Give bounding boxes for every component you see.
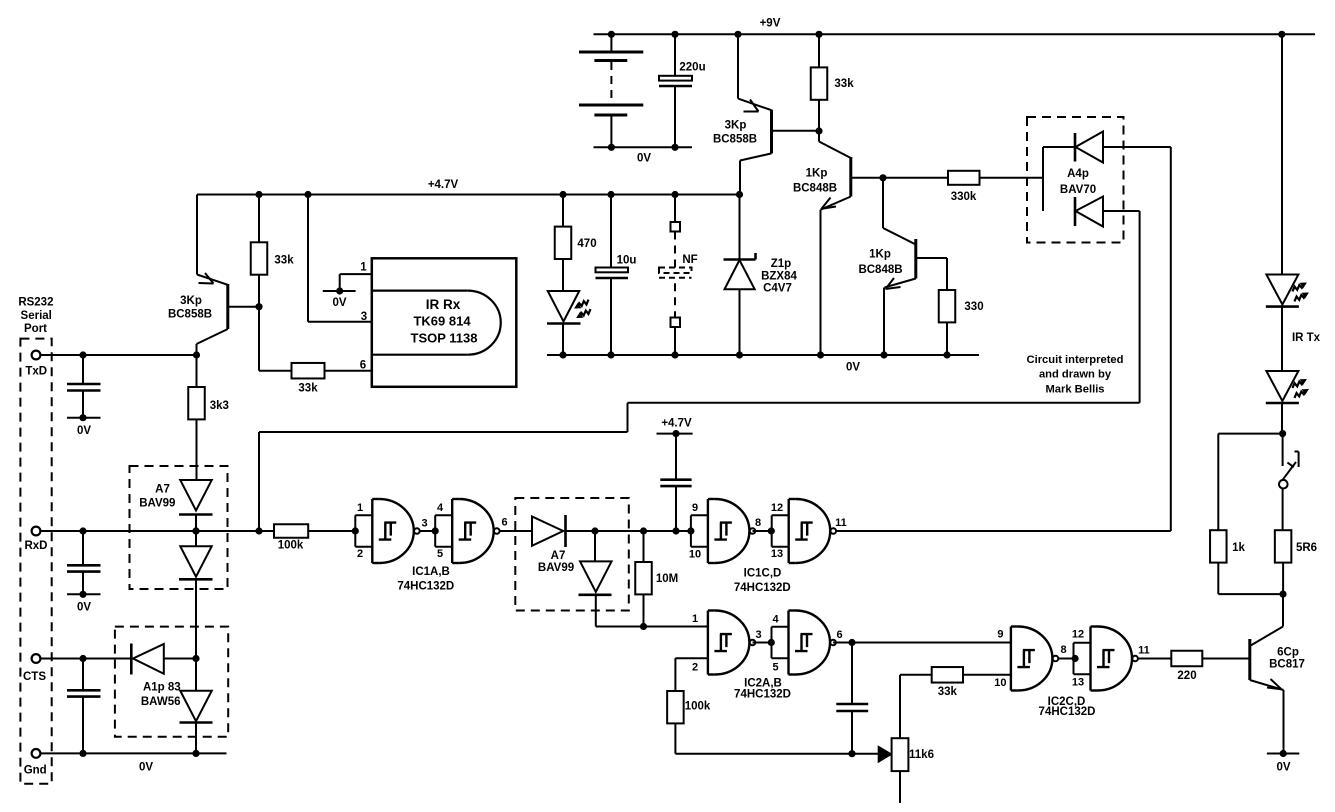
svg-text:10M: 10M (656, 573, 678, 585)
svg-text:330: 330 (964, 301, 983, 313)
svg-text:2: 2 (357, 548, 363, 560)
svg-text:10: 10 (994, 677, 1006, 689)
svg-text:1: 1 (360, 261, 367, 273)
svg-text:0V: 0V (77, 425, 91, 437)
svg-text:5: 5 (437, 548, 443, 560)
svg-text:11: 11 (1138, 645, 1150, 657)
svg-text:3: 3 (421, 518, 427, 530)
svg-text:1Kp: 1Kp (869, 249, 891, 261)
svg-text:10: 10 (689, 549, 701, 561)
svg-text:+4.7V: +4.7V (661, 418, 692, 430)
svg-text:NF: NF (682, 254, 697, 266)
svg-text:74HC132D: 74HC132D (397, 581, 454, 593)
svg-text:10u: 10u (617, 255, 637, 267)
svg-text:Mark Bellis: Mark Bellis (1045, 384, 1104, 396)
svg-text:+9V: +9V (760, 18, 781, 30)
svg-text:+4.7V: +4.7V (428, 179, 459, 191)
svg-text:A7: A7 (155, 484, 170, 496)
svg-text:9: 9 (997, 629, 1003, 641)
svg-text:BAW56: BAW56 (141, 696, 181, 708)
svg-text:BAV70: BAV70 (1060, 184, 1096, 196)
svg-text:Port: Port (24, 323, 47, 335)
svg-text:RS232: RS232 (18, 296, 53, 308)
svg-text:Gnd: Gnd (24, 765, 47, 777)
svg-text:A4p: A4p (1067, 168, 1089, 180)
svg-text:BC858B: BC858B (713, 133, 757, 145)
svg-text:33k: 33k (938, 686, 958, 698)
svg-text:4: 4 (772, 614, 779, 626)
svg-text:2: 2 (692, 662, 698, 674)
svg-text:BC817: BC817 (1269, 659, 1305, 671)
svg-text:6: 6 (836, 629, 842, 641)
svg-text:and drawn by: and drawn by (1039, 369, 1112, 381)
svg-text:1: 1 (357, 502, 363, 514)
svg-text:A1p 83: A1p 83 (143, 682, 181, 694)
svg-text:11k6: 11k6 (909, 749, 934, 761)
svg-text:BAV99: BAV99 (538, 562, 574, 574)
svg-text:33k: 33k (274, 255, 294, 267)
svg-text:13: 13 (771, 548, 783, 560)
svg-text:0V: 0V (637, 153, 651, 165)
svg-text:1Kp: 1Kp (806, 168, 828, 180)
svg-text:Circuit interpreted: Circuit interpreted (1027, 354, 1124, 366)
svg-text:TSOP 1138: TSOP 1138 (411, 331, 478, 346)
svg-text:TxD: TxD (25, 366, 47, 378)
svg-text:33k: 33k (298, 383, 318, 395)
svg-text:0V: 0V (846, 362, 860, 374)
svg-text:74HC132D: 74HC132D (734, 689, 791, 701)
svg-text:12: 12 (1072, 629, 1084, 641)
svg-text:Serial: Serial (21, 310, 52, 322)
svg-text:100k: 100k (685, 700, 711, 712)
svg-text:IC1A,B: IC1A,B (412, 566, 450, 578)
svg-text:BC848B: BC848B (858, 264, 902, 276)
svg-text:IR Rx: IR Rx (426, 297, 461, 312)
svg-text:330k: 330k (951, 191, 977, 203)
svg-text:6Cp: 6Cp (1277, 647, 1299, 659)
svg-text:12: 12 (771, 502, 783, 514)
svg-text:BC848B: BC848B (793, 183, 837, 195)
svg-text:1: 1 (692, 613, 698, 625)
svg-text:1k: 1k (1232, 542, 1245, 554)
svg-text:220: 220 (1177, 670, 1196, 682)
svg-text:0V: 0V (77, 602, 91, 614)
svg-text:3Kp: 3Kp (725, 120, 747, 132)
svg-text:5: 5 (772, 662, 778, 674)
svg-text:IR Tx: IR Tx (1292, 332, 1321, 344)
svg-text:5R6: 5R6 (1296, 542, 1317, 554)
svg-text:74HC132D: 74HC132D (1039, 706, 1096, 718)
svg-text:11: 11 (835, 517, 847, 529)
svg-text:6: 6 (501, 517, 507, 529)
svg-text:A7: A7 (551, 550, 566, 562)
svg-text:RxD: RxD (24, 540, 47, 552)
svg-text:C4V7: C4V7 (763, 283, 792, 295)
svg-text:3: 3 (361, 311, 367, 323)
svg-text:CTS: CTS (23, 671, 46, 683)
svg-text:0V: 0V (139, 762, 153, 774)
svg-text:Z1p: Z1p (771, 258, 791, 270)
svg-text:0V: 0V (332, 297, 346, 309)
svg-text:BZX84: BZX84 (761, 271, 797, 283)
svg-text:74HC132D: 74HC132D (734, 582, 791, 594)
svg-text:8: 8 (755, 517, 761, 529)
svg-text:3k3: 3k3 (210, 400, 229, 412)
svg-text:33k: 33k (834, 78, 854, 90)
svg-text:100k: 100k (278, 540, 304, 552)
svg-text:TK69 814: TK69 814 (413, 314, 471, 329)
svg-text:220u: 220u (679, 62, 705, 74)
svg-text:13: 13 (1072, 677, 1084, 689)
svg-text:6: 6 (360, 360, 366, 372)
svg-text:3Kp: 3Kp (180, 295, 202, 307)
svg-text:8: 8 (1060, 644, 1066, 656)
svg-text:4: 4 (437, 502, 444, 514)
svg-text:IC1C,D: IC1C,D (744, 568, 782, 580)
svg-text:9: 9 (692, 502, 698, 514)
svg-text:0V: 0V (1276, 762, 1290, 774)
svg-text:3: 3 (755, 629, 761, 641)
svg-text:BAV99: BAV99 (139, 498, 175, 510)
svg-text:470: 470 (577, 238, 596, 250)
svg-text:BC858B: BC858B (168, 309, 212, 321)
